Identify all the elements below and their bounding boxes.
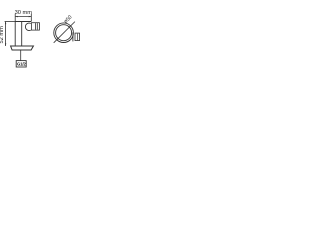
front view: inner circle [56, 25, 72, 41]
extension line top-left [5, 21, 16, 23]
svg-text:30 mm: 30 mm [15, 10, 33, 16]
side view: knurled grip box [31, 23, 39, 30]
arrowheads vertical dim [5, 22, 6, 47]
arrowheads diameter [57, 26, 71, 40]
side view: ball knob arc [25, 23, 30, 30]
leader line [20, 50, 22, 61]
side view: knurl lines [36, 23, 38, 30]
front view: clip box [75, 33, 80, 41]
extension tick right [30, 14, 32, 22]
dimension line 30mm [15, 16, 31, 18]
side view: rosette flange trapezoid [11, 46, 34, 50]
vertical dimension line [5, 22, 7, 47]
side view: wall plate right edge [21, 22, 23, 47]
diameter dimension line diagonal [54, 22, 75, 43]
front view: outer circle [54, 23, 74, 43]
side view: top outline [15, 21, 31, 23]
side view: wall plate left edge [14, 22, 16, 47]
label box G1/2 [16, 61, 26, 67]
arrowheads 30mm [15, 16, 31, 17]
front view: clip hatch [76, 34, 78, 41]
svg-text:52 mm: 52 mm [0, 26, 5, 44]
front view: holder clip flange line [72, 32, 74, 41]
svg-text:ø50: ø50 [63, 14, 74, 25]
svg-text:G1/2: G1/2 [17, 62, 26, 67]
extension tick left [14, 14, 16, 22]
